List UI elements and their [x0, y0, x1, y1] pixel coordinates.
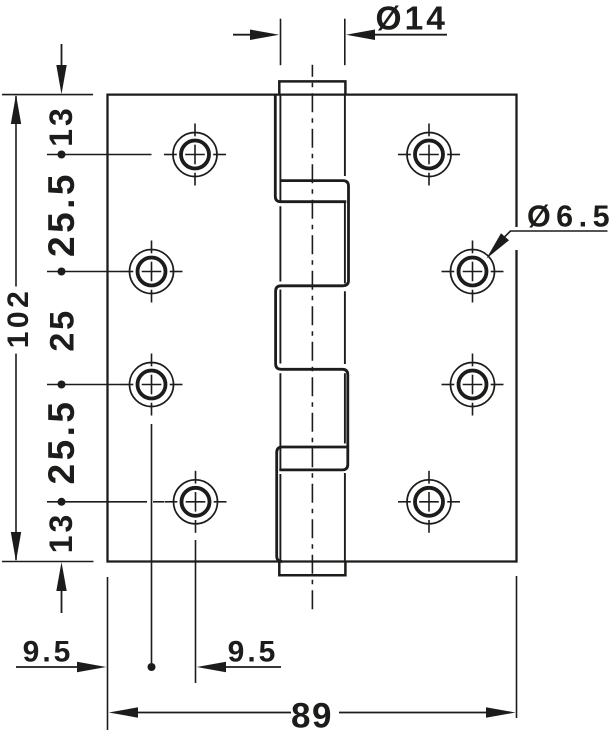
svg-text:9.5: 9.5	[228, 636, 279, 669]
svg-text:Ø14: Ø14	[376, 1, 448, 38]
svg-text:9.5: 9.5	[23, 636, 74, 669]
svg-text:Ø6.5: Ø6.5	[527, 199, 611, 233]
svg-text:25.5: 25.5	[41, 171, 82, 257]
svg-text:102: 102	[2, 288, 35, 349]
svg-text:13: 13	[43, 105, 79, 147]
svg-text:25: 25	[44, 308, 82, 351]
svg-text:25.5: 25.5	[41, 398, 82, 484]
svg-text:89: 89	[291, 696, 333, 730]
svg-text:13: 13	[43, 512, 79, 554]
